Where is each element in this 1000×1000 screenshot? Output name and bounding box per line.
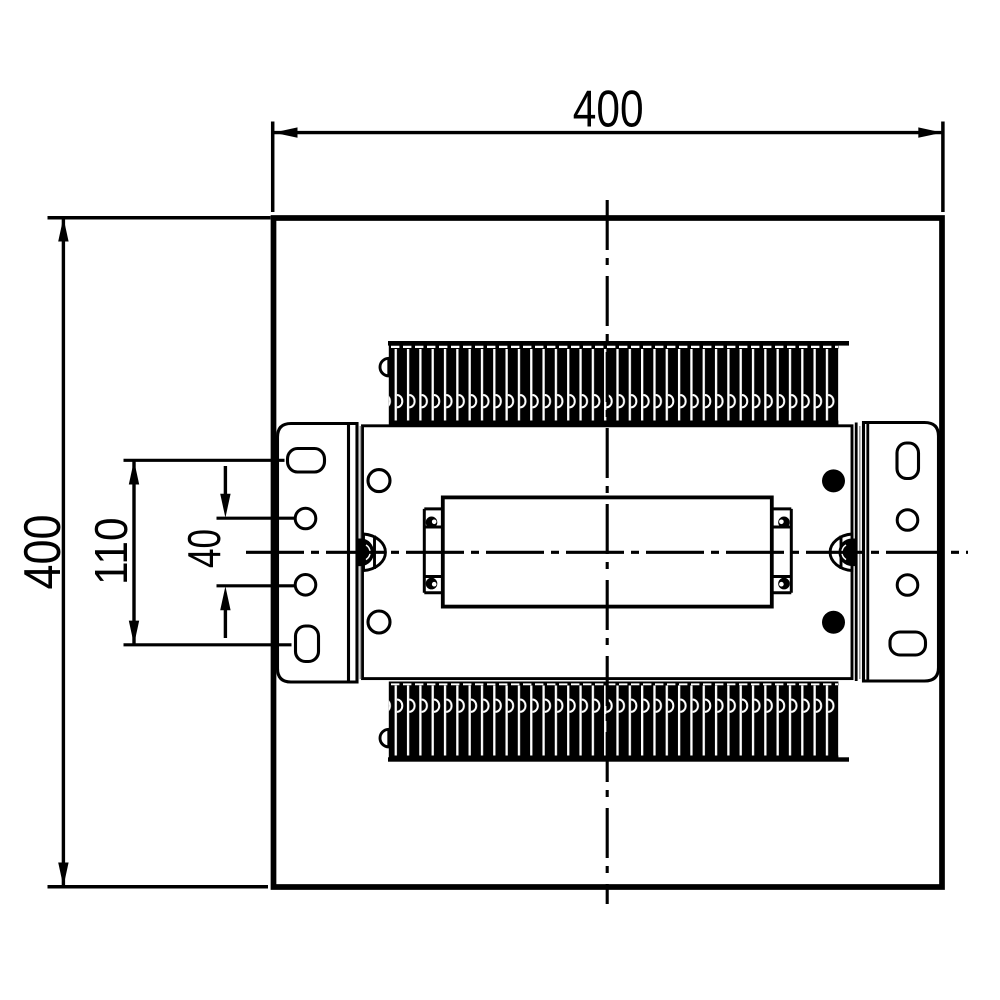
plate rivet upper-right (filled) bbox=[822, 469, 845, 492]
dimension 400 left: dimension line bbox=[62, 218, 65, 887]
slot hole top-left (horizontal) bbox=[288, 449, 325, 473]
svg-text:110: 110 bbox=[85, 518, 137, 586]
clip stud upper-left bbox=[426, 517, 438, 529]
dimension 40: leader with arrow top bbox=[224, 466, 227, 496]
winding lead loop bottom bbox=[380, 729, 389, 747]
round hole right lower bbox=[897, 575, 918, 596]
round hole left upper bbox=[295, 508, 316, 529]
plate hole upper-left (open) bbox=[368, 470, 390, 492]
svg-text:40: 40 bbox=[178, 529, 230, 568]
dimension 400 top: arrowheads bbox=[274, 127, 298, 137]
lamination edge line right (gray) bbox=[859, 426, 861, 679]
terminal clip rail left bbox=[424, 509, 442, 593]
dimension 400 left: extension lines bbox=[48, 216, 271, 220]
centerline vertical bbox=[606, 200, 609, 904]
centerline horizontal bbox=[246, 551, 968, 554]
coil winding bottom bbox=[388, 682, 849, 762]
svg-text:400: 400 bbox=[573, 79, 644, 137]
dimension 400 top: dimension line bbox=[274, 131, 943, 134]
slot hole bottom-left (vertical) bbox=[296, 626, 319, 662]
dimension 40: leader with arrow bottom bbox=[224, 610, 227, 638]
clip stud lower-right bbox=[778, 578, 790, 590]
dimension 110: extension lines bbox=[124, 459, 285, 462]
clip stud lower-left bbox=[426, 578, 438, 590]
dimension 400 top: extension lines bbox=[271, 122, 275, 213]
clip stud upper-right bbox=[778, 517, 790, 529]
plate rivet lower-right (filled) bbox=[822, 611, 845, 634]
round hole left lower bbox=[295, 575, 316, 596]
lamination edge line left (gray) bbox=[359, 426, 361, 679]
mounting bracket left bbox=[278, 424, 358, 683]
svg-text:400: 400 bbox=[13, 515, 71, 590]
terminal box bbox=[443, 497, 772, 606]
round hole right upper bbox=[897, 510, 918, 531]
dimension 110: arrowheads bbox=[129, 461, 139, 485]
terminal clip rail right bbox=[773, 509, 791, 593]
mounting bracket right bbox=[856, 423, 938, 682]
slot hole top-right (vertical) bbox=[897, 443, 919, 479]
clamp bolt left bbox=[356, 534, 385, 571]
winding lead loop top bbox=[380, 358, 389, 376]
base plate square 400x400 bbox=[274, 218, 943, 887]
core lamination plate bbox=[363, 426, 853, 679]
dimension 400 left: arrowheads bbox=[58, 218, 68, 242]
slot hole bottom-right (horizontal) bbox=[890, 632, 926, 655]
dimension 40: extension lines bbox=[217, 517, 296, 520]
clamp bolt right bbox=[830, 534, 856, 571]
coil winding top bbox=[388, 341, 849, 426]
dimension 110: dimension line bbox=[132, 461, 135, 645]
plate hole lower-left (open) bbox=[368, 611, 390, 633]
